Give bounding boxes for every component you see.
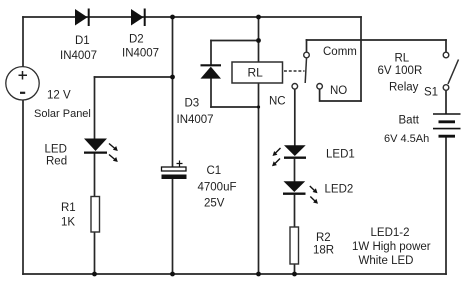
svg-text:Red: Red <box>46 156 67 168</box>
svg-text:RL: RL <box>395 53 410 65</box>
svg-text:C1: C1 <box>207 165 222 177</box>
switch S1 <box>443 52 458 90</box>
wire D3 branch upper <box>210 41 212 65</box>
svg-text:NC: NC <box>269 96 286 108</box>
LED2 symbol <box>283 181 318 203</box>
capacitor C1 <box>162 161 187 180</box>
wire NO contact to right rail <box>320 89 361 101</box>
wire Comm contact stem <box>306 40 308 52</box>
svg-text:1W High power: 1W High power <box>352 241 431 253</box>
junction dot C1 / bottom rail <box>170 272 175 277</box>
svg-text:IN4007: IN4007 <box>60 50 97 62</box>
svg-text:LED1: LED1 <box>326 149 355 161</box>
solar panel source 12V <box>6 67 39 100</box>
svg-text:4700uF: 4700uF <box>198 182 237 194</box>
battery Batt 6V <box>433 114 461 136</box>
junction dot R2 / bottom rail <box>292 272 297 277</box>
svg-text:12 V: 12 V <box>47 90 71 102</box>
wire left rail upper <box>22 17 24 67</box>
relay switch arm <box>305 58 306 83</box>
wire left rail lower <box>22 100 24 275</box>
wire R2 to bottom rail <box>294 264 296 274</box>
svg-text:D2: D2 <box>129 34 144 46</box>
wire D3 bottom connection <box>211 106 259 108</box>
svg-text:S1: S1 <box>424 87 438 99</box>
svg-text:White LED: White LED <box>359 255 414 267</box>
svg-text:NO: NO <box>330 85 347 97</box>
svg-text:6V 100R: 6V 100R <box>378 65 423 77</box>
svg-text:D3: D3 <box>185 98 200 110</box>
LED1 symbol <box>272 145 306 166</box>
svg-text:18R: 18R <box>313 245 334 257</box>
svg-text:Solar Panel: Solar Panel <box>34 108 91 120</box>
svg-text:LED: LED <box>45 144 67 156</box>
mechanical link dashed <box>284 70 305 72</box>
diode D3 <box>201 65 222 78</box>
svg-text:D1: D1 <box>75 35 90 47</box>
diode D1 <box>75 9 89 27</box>
svg-text:LED1-2: LED1-2 <box>371 227 410 239</box>
wire LED1 to LED2 <box>294 160 296 182</box>
svg-text:Batt: Batt <box>399 115 420 127</box>
wire S1 stem from Comm rail <box>445 40 447 52</box>
relay contact NO <box>317 84 323 90</box>
relay contact Comm <box>304 52 310 58</box>
junction dot relay rail / bottom rail <box>256 272 261 277</box>
wire LED Red branch horizontal <box>95 76 173 78</box>
wire right vertical rail <box>360 17 362 101</box>
junction dot D3 top / relay rail <box>256 38 261 43</box>
wire relay coil rail lower <box>258 83 260 274</box>
wire battery to bottom rail <box>445 137 447 274</box>
junction dot LED branch / C1 rail <box>170 75 175 80</box>
wire top rail <box>23 16 361 18</box>
wire middle rail C1 branch upper <box>172 17 174 167</box>
svg-text:Comm: Comm <box>323 46 357 58</box>
junction dot R1 / bottom rail <box>92 272 97 277</box>
svg-text:Relay: Relay <box>389 82 419 94</box>
svg-text:R1: R1 <box>61 202 76 214</box>
diode D2 <box>131 9 145 27</box>
relay coil RL box <box>232 62 283 83</box>
wire S1 to battery <box>445 90 447 113</box>
resistor R1 <box>91 197 100 233</box>
wire bottom rail <box>23 273 446 275</box>
svg-text:IN4007: IN4007 <box>177 114 214 126</box>
resistor R2 <box>290 227 299 264</box>
wire R1 to bottom rail <box>94 232 96 274</box>
svg-text:6V 4.5Ah: 6V 4.5Ah <box>384 133 429 145</box>
junction dot D3 bottom / relay rail <box>257 105 260 108</box>
svg-text:RL: RL <box>248 66 264 80</box>
wire LED2 to R2 <box>294 196 296 228</box>
svg-text:25V: 25V <box>204 198 225 210</box>
svg-text:R2: R2 <box>316 232 331 244</box>
relay contact NC <box>292 84 298 90</box>
svg-text:1K: 1K <box>61 217 75 229</box>
wire LED Red to R1 <box>94 154 96 197</box>
junction dot top rail / C1 rail <box>170 15 175 20</box>
wire NC contact to LED1 <box>294 89 296 146</box>
wire D3 top connection <box>211 40 259 42</box>
svg-text:LED2: LED2 <box>325 184 354 196</box>
svg-text:IN4007: IN4007 <box>122 48 159 60</box>
wire Comm rail <box>307 39 447 41</box>
LED Red symbol <box>84 139 118 163</box>
junction dot top rail / relay rail <box>256 15 261 20</box>
wire D3 branch lower <box>210 79 212 108</box>
wire LED Red branch vertical <box>94 77 96 139</box>
wire middle rail C1 branch lower <box>172 179 174 274</box>
wire relay coil rail upper <box>258 17 260 62</box>
